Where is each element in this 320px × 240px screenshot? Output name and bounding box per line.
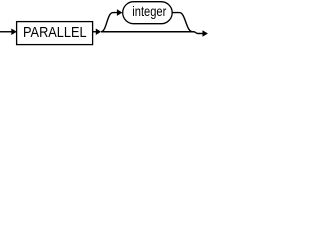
wire: exit line from PARALLEL box [93,31,96,33]
arrowhead at integer oval input [117,9,123,16]
wire: entry line into PARALLEL box [0,31,12,33]
svg-text:PARALLEL: PARALLEL [23,25,87,41]
arrowhead at PARALLEL box input [11,28,16,35]
wire: exit drop curve to output arrow [194,32,203,34]
wire: bypass line under integer oval [101,31,194,33]
arrowhead at diagram output [203,30,208,37]
wire: curve down from integer oval to main line [172,13,192,32]
arrowhead after PARALLEL box [96,28,101,35]
keyword box PARALLEL [17,22,93,45]
svg-text:integer: integer [132,4,166,19]
terminal oval integer [123,2,173,24]
wire: branch curve up to integer path [101,13,117,32]
